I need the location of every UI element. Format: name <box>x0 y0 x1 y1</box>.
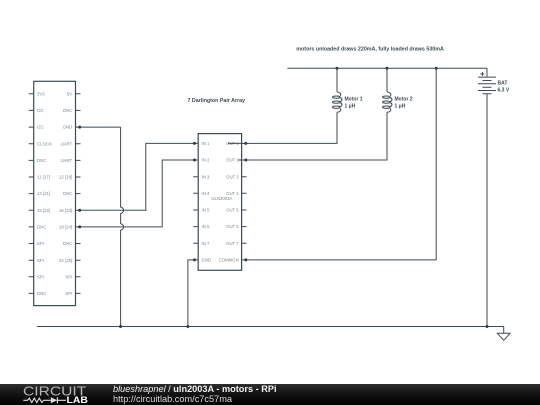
CircuitLab logo <box>0 384 110 405</box>
node dot COMMON pin <box>244 258 247 261</box>
connector J1 right pin labels <box>59 91 73 296</box>
svg-text:IN 7: IN 7 <box>202 241 210 246</box>
svg-text:IN 6: IN 6 <box>202 224 210 229</box>
svg-text:15 [22]: 15 [22] <box>37 208 50 213</box>
footer bar <box>0 384 540 405</box>
ground symbol <box>497 327 510 341</box>
motor M1 labels <box>345 97 363 110</box>
footer title text <box>113 384 277 404</box>
svg-text:UART: UART <box>61 158 73 163</box>
svg-text:Motor 1: Motor 1 <box>345 97 363 103</box>
node dot IN1 pin <box>193 142 196 145</box>
annotation note <box>296 46 444 52</box>
svg-text:SPI: SPI <box>37 241 44 246</box>
node dot OUT1 pin <box>244 142 247 145</box>
IC U1 left pin stubs <box>193 143 198 260</box>
svg-text:13 [21]: 13 [21] <box>37 191 50 196</box>
svg-text:SPI: SPI <box>65 274 72 279</box>
node dot IC GND riser on rail <box>186 325 189 328</box>
svg-text:LAB: LAB <box>67 395 89 405</box>
svg-text:16 [23]: 16 [23] <box>59 208 72 213</box>
svg-text:DNC: DNC <box>63 108 72 113</box>
node dot IC GND pin <box>193 258 196 261</box>
node dot M2 top <box>386 67 389 70</box>
svg-text:IN 5: IN 5 <box>202 208 210 213</box>
svg-text:DNC: DNC <box>37 225 46 230</box>
svg-text:3V3: 3V3 <box>37 91 45 96</box>
svg-text:OUT 2: OUT 2 <box>226 158 239 163</box>
svg-text:DNC: DNC <box>37 158 46 163</box>
svg-text:OUT 7: OUT 7 <box>226 241 239 246</box>
wire OUT1 to motor M1 <box>228 112 337 143</box>
IC U1 name label ULN2003A <box>211 196 232 201</box>
svg-text:22 [25]: 22 [25] <box>59 258 72 263</box>
svg-text:IN 1: IN 1 <box>202 141 210 146</box>
node dot COMMON riser on top rail <box>435 67 438 70</box>
svg-text:IN 3: IN 3 <box>202 174 210 179</box>
wire motor M1 top drop <box>336 68 338 92</box>
wire 18[24] to IN2 <box>80 160 195 227</box>
battery BAT plates <box>478 77 496 94</box>
connector J1 right pin stubs <box>76 94 81 294</box>
svg-text:Motor 2: Motor 2 <box>395 97 413 103</box>
svg-text:DNC: DNC <box>63 241 72 246</box>
svg-text:COMMON: COMMON <box>219 258 239 263</box>
node dot M1 top <box>336 67 339 70</box>
IC U1 right pin stubs <box>242 143 247 260</box>
svg-text:SPI: SPI <box>37 258 44 263</box>
svg-text:GND: GND <box>63 125 73 130</box>
svg-text:OUT 6: OUT 6 <box>226 224 239 229</box>
IC U1 left pin labels <box>202 141 212 263</box>
inductor motor M1 coil <box>333 92 342 112</box>
node dot battery on rail <box>486 325 489 328</box>
svg-text:18 [24]: 18 [24] <box>59 225 72 230</box>
svg-text:11 [17]: 11 [17] <box>37 175 50 180</box>
svg-text:SPI: SPI <box>37 274 44 279</box>
inductor motor M2 coil <box>383 92 392 112</box>
svg-text:CLOCK: CLOCK <box>37 141 52 146</box>
svg-text:1 μH: 1 μH <box>345 104 356 110</box>
node dot 18[24] pin <box>78 225 81 228</box>
battery labels BAT 6.3 V <box>498 80 510 93</box>
wire OUT2 to motor M2 <box>238 112 387 160</box>
svg-text:OUT 3: OUT 3 <box>226 174 239 179</box>
svg-text:UART: UART <box>61 141 73 146</box>
wire top positive rail <box>287 67 487 69</box>
connector J1 RPi GPIO header box <box>34 81 76 305</box>
svg-text:ULN2003A: ULN2003A <box>211 196 232 201</box>
svg-text:OUT 4: OUT 4 <box>226 191 239 196</box>
svg-text:SPI: SPI <box>65 291 72 296</box>
svg-text:BAT: BAT <box>498 80 508 86</box>
svg-text:I2C: I2C <box>37 125 44 130</box>
wire IC GND to ground rail <box>188 260 193 327</box>
node dot OUT2 pin <box>244 159 247 162</box>
node dot J1 GND riser on rail <box>119 325 122 328</box>
svg-text:I2C: I2C <box>37 108 44 113</box>
wire 16[23] to IN1 <box>80 143 195 210</box>
svg-text:7 Darlington Pair Array: 7 Darlington Pair Array <box>188 98 246 104</box>
svg-text:12 [18]: 12 [18] <box>59 175 72 180</box>
node dot GND pin J1 <box>78 126 81 129</box>
svg-text:1 μH: 1 μH <box>395 104 406 110</box>
svg-text:OUT 5: OUT 5 <box>226 208 239 213</box>
IC U1 right pin labels <box>219 141 240 263</box>
IC U1 ULN2003A box <box>198 134 241 271</box>
battery plus sign <box>480 72 484 76</box>
svg-text:DNC: DNC <box>37 291 46 296</box>
wire motor M2 top drop <box>386 68 388 92</box>
wire GND from J1 to ground rail with hops <box>80 127 124 326</box>
connector J1 left pin stubs <box>29 94 34 294</box>
svg-text:IN 2: IN 2 <box>202 158 210 163</box>
svg-text:DNC: DNC <box>63 191 72 196</box>
svg-text:GND: GND <box>202 258 212 263</box>
IC U1 title 7 Darlington Pair Array <box>188 98 246 104</box>
wire battery negative to ground rail <box>486 94 488 327</box>
node dot 16[23] pin <box>78 209 81 212</box>
svg-text:5V: 5V <box>67 91 72 96</box>
svg-text:IN 4: IN 4 <box>202 191 210 196</box>
node dot IN2 pin <box>193 159 196 162</box>
svg-text:6.3 V: 6.3 V <box>498 87 510 93</box>
motor M2 labels <box>395 97 413 110</box>
connector J1 left pin labels <box>37 91 52 296</box>
wire COMMON to top rail <box>247 68 437 260</box>
svg-text:motors unloaded draws 220mA, f: motors unloaded draws 220mA, fully loade… <box>296 46 444 52</box>
wire battery top drop <box>486 68 488 77</box>
wire bottom ground rail <box>37 326 504 328</box>
